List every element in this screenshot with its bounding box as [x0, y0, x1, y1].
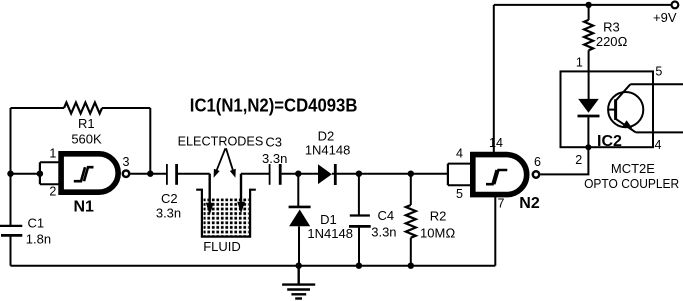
svg-text:1: 1	[49, 147, 56, 161]
svg-text:C1: C1	[28, 216, 45, 231]
wire right electrode to C3	[241, 173, 269, 175]
wire left rail upper	[10, 108, 12, 226]
terminal +9V	[672, 2, 679, 9]
IC2 emitter arrowhead	[623, 120, 633, 128]
resistor R1	[64, 103, 102, 114]
electrodes pointer arrow left	[217, 148, 226, 170]
wire N1 output	[130, 173, 167, 175]
svg-text:IC1(N1,N2)=CD4093B: IC1(N1,N2)=CD4093B	[190, 95, 358, 115]
node input junction on rail	[7, 171, 13, 177]
wire R2 branch lower	[410, 238, 412, 266]
right electrode arrowhead	[237, 202, 245, 214]
svg-text:14: 14	[489, 136, 503, 150]
wire N2 output to IC2 pin2	[541, 117, 589, 174]
capacitor C2	[166, 164, 168, 185]
svg-text:6: 6	[534, 155, 541, 169]
capacitor C4	[350, 214, 370, 216]
svg-text:C2: C2	[161, 191, 178, 206]
node D1 top junction	[295, 171, 301, 177]
svg-text:C4: C4	[377, 208, 394, 223]
wire N2 input stub pin5	[448, 184, 471, 186]
IC2 phototransistor	[608, 92, 643, 127]
svg-text:1N4148: 1N4148	[305, 143, 351, 158]
svg-text:2: 2	[49, 184, 56, 198]
svg-text:FLUID: FLUID	[203, 239, 241, 254]
N1 hysteresis symbol	[74, 167, 85, 181]
node C4 top junction	[356, 171, 362, 177]
N2 hysteresis symbol	[486, 170, 497, 184]
svg-text:+9V: +9V	[653, 10, 677, 25]
svg-text:4: 4	[655, 138, 662, 152]
svg-text:C3: C3	[265, 135, 282, 150]
diode D1	[289, 206, 311, 209]
wire bottom rail	[11, 265, 496, 267]
diode D2	[318, 164, 332, 184]
ground	[298, 266, 300, 285]
node N1 output junction	[147, 171, 153, 177]
svg-text:220Ω: 220Ω	[596, 34, 628, 49]
N1 output bubble pin3	[123, 171, 129, 177]
wire left electrode	[208, 174, 210, 206]
node R3 top junction	[585, 2, 591, 8]
nand gate N1 body	[61, 154, 118, 192]
wire R3 to LED	[588, 50, 590, 99]
wire N1 input stub pin2	[40, 183, 60, 185]
wire N1 input bar	[39, 162, 41, 184]
capacitor C1	[0, 225, 22, 227]
fluid fill	[204, 199, 249, 236]
svg-text:3.3n: 3.3n	[262, 151, 287, 166]
node ground junction	[296, 263, 302, 269]
wire left rail lower	[10, 235, 12, 265]
nand gate N2 body	[473, 155, 527, 195]
wire N2 input bar	[447, 164, 449, 186]
capacitor C3	[269, 164, 271, 185]
wire D2 to N2 input	[332, 173, 448, 175]
IC2 LED	[578, 99, 599, 113]
wire N2 pin14 riser	[493, 5, 495, 155]
svg-text:N2: N2	[519, 195, 540, 212]
svg-text:1.8n: 1.8n	[26, 231, 51, 246]
svg-text:5: 5	[456, 187, 463, 201]
svg-text:5: 5	[655, 65, 662, 79]
svg-text:OPTO COUPLER: OPTO COUPLER	[584, 176, 679, 191]
resistor R3	[584, 20, 593, 50]
node C4 bottom junction	[356, 263, 362, 269]
svg-text:ELECTRODES: ELECTRODES	[178, 134, 264, 149]
svg-text:560K: 560K	[71, 131, 102, 146]
wire C4 branch upper	[358, 174, 360, 216]
svg-text:3.3n: 3.3n	[156, 205, 181, 220]
node N1 input bar junction	[37, 171, 43, 177]
wire D1 branch lower	[298, 226, 300, 265]
wire top left	[11, 107, 65, 109]
svg-text:N1: N1	[74, 199, 95, 216]
N2 output bubble pin6	[533, 171, 539, 177]
wire C4 branch lower	[358, 226, 360, 265]
wire top right of R1	[102, 107, 150, 109]
svg-text:R2: R2	[430, 209, 447, 224]
svg-text:4: 4	[456, 147, 463, 161]
electrodes pointer arrow right	[226, 148, 233, 170]
svg-text:1N4148: 1N4148	[307, 226, 353, 241]
wire N2 pin7 drop	[494, 196, 496, 266]
resistor R2	[406, 205, 416, 238]
svg-text:IC2: IC2	[597, 133, 622, 150]
beaker FLUID container	[196, 190, 256, 237]
node IC2 pin2 junction	[585, 144, 591, 150]
wire IC2 pin5 out	[630, 83, 683, 85]
wire feedback riser	[149, 108, 151, 174]
wire N2 input stub pin4	[448, 163, 471, 165]
svg-text:3.3n: 3.3n	[371, 225, 396, 240]
svg-text:D2: D2	[318, 129, 335, 144]
wire C3 to D2	[282, 173, 318, 175]
svg-text:2: 2	[575, 153, 582, 167]
wire R2 branch upper	[410, 174, 412, 205]
node R2 bottom junction	[408, 263, 414, 269]
wire D1 branch upper	[297, 174, 299, 207]
wire N1 input stub pin1	[40, 161, 60, 163]
svg-text:R1: R1	[78, 116, 95, 131]
wire C2 to left electrode	[178, 173, 210, 175]
wire right electrode	[240, 174, 242, 205]
svg-text:10MΩ: 10MΩ	[420, 225, 455, 240]
wire IC2 pin4 out	[636, 131, 683, 133]
IC2 box	[561, 71, 654, 147]
node R2 top junction	[408, 171, 414, 177]
svg-text:7: 7	[498, 197, 505, 211]
wire N1 input	[11, 173, 40, 175]
svg-text:R3: R3	[603, 19, 620, 34]
svg-text:3: 3	[123, 155, 130, 169]
wire top rail	[494, 4, 672, 6]
wire R3 top	[588, 5, 590, 20]
left electrode arrowhead	[206, 203, 214, 215]
svg-text:1: 1	[576, 55, 583, 69]
svg-text:MCT2E: MCT2E	[611, 161, 655, 176]
